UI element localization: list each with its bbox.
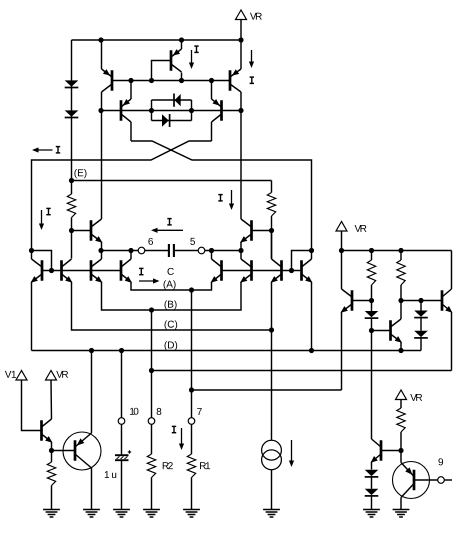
node junction rail / R7 xyxy=(398,248,403,253)
wire E right leg down to resistor R4 xyxy=(271,181,273,193)
node junction VR / Q21 collector xyxy=(339,248,344,253)
antiparallel diode pair box xyxy=(152,99,192,101)
label (A) xyxy=(164,280,176,289)
wire VR down to Q19 collector xyxy=(50,380,53,419)
wire Q7 collector riser xyxy=(101,111,103,220)
wire terminal 7 column xyxy=(191,290,193,418)
capacitor C left plate xyxy=(168,244,170,257)
transistor Q5 (PNP, top middle) xyxy=(170,50,173,71)
transistor Q11 (NPN, row2) xyxy=(60,260,63,281)
transistor Q22 (NPN, small right block) xyxy=(389,320,392,341)
node junction T1 emitter / top rail xyxy=(98,37,103,42)
wire cross-over left (Q4 collector to left column) xyxy=(32,141,212,251)
ground (below R2) xyxy=(143,509,160,511)
node junction Q4 emitter / base bus xyxy=(209,78,214,83)
transistor Q4 (PNP, mid right) xyxy=(220,100,223,121)
label (B) xyxy=(165,300,177,309)
resistor R6 xyxy=(371,251,373,261)
wire Q23 emitter riser xyxy=(371,462,373,470)
current arrow I (down, x=41.5) xyxy=(48,208,50,214)
wire terminal 10 column xyxy=(121,351,123,418)
transistor Q14 (NPN, row2) xyxy=(220,260,223,281)
diode D6 (chain upper) xyxy=(420,301,422,311)
wire net from terminal 7 to Q23 emitter y=390 xyxy=(192,389,342,391)
wire Q24 collector riser xyxy=(451,251,453,290)
wire V1 down to Q19 base xyxy=(22,380,42,431)
wire terminal 6 to capacitor xyxy=(145,250,168,252)
source V1 xyxy=(5,371,16,378)
transistor Q20 (PNP, circled) xyxy=(63,432,101,470)
wire current source to ground xyxy=(271,470,273,510)
wire Q25 collector to ground xyxy=(400,498,402,510)
wire Q19 emitter riser xyxy=(51,442,53,451)
wire Q20 base xyxy=(52,450,76,452)
node junction Q5 base / base bus xyxy=(149,78,154,83)
wire R4 bottom to Q12 collector xyxy=(271,231,273,259)
label (C) xyxy=(165,320,178,329)
ground (below C1) xyxy=(113,509,130,511)
resistor R2 xyxy=(147,454,155,478)
diode D2 (left string, lower) xyxy=(65,110,79,116)
current arrow I (down, x=231.5) xyxy=(220,195,222,201)
wire terminal 9 stub xyxy=(444,479,452,481)
wire VR rail y=250.5 xyxy=(342,250,452,252)
transistor Q8 (NPN, row1 right) xyxy=(250,220,253,241)
node junction R7 bottom / Q22 collector / base bus xyxy=(398,298,403,303)
label (D) xyxy=(165,341,178,350)
power VR (bottom left) xyxy=(46,371,57,381)
transistor Q16 (NPN, row2) xyxy=(280,260,283,281)
terminal 5 xyxy=(198,247,205,254)
node junction B line / terminal 8 column xyxy=(149,307,154,312)
wire Q10-base-collector jumper left xyxy=(32,251,52,271)
diode D5 (below R6) xyxy=(371,301,373,312)
transistor Q21 (NPN, right block left) xyxy=(351,290,354,311)
power VR (bottom right) xyxy=(396,390,407,400)
node junction D / Q17 emitter xyxy=(309,348,314,353)
transistor Q11c (NPN, row2) xyxy=(90,260,93,281)
wire net D y=350.5 xyxy=(32,350,422,352)
wire Q20 collector to ground xyxy=(91,468,93,510)
node junction diode pair right / bus xyxy=(189,108,194,113)
wire Q5 emitter riser xyxy=(181,40,183,49)
diode D4 (pair, bottom, pointing right) xyxy=(162,114,169,127)
wire Q1 collector riser xyxy=(101,92,103,111)
wire top rail y=40 xyxy=(72,39,242,41)
diode D1 (left string, upper) xyxy=(65,80,79,86)
wire Q10 emitter riser down to D line xyxy=(31,282,33,351)
wire Q25 emitter riser xyxy=(400,451,402,463)
wire Q21 emitter riser down to terminal7 net xyxy=(341,312,343,390)
wire base bus y=80.5 xyxy=(112,80,230,82)
wire right base bus y=300.5 xyxy=(401,300,442,302)
current arrow I (pointing right, A line) xyxy=(140,268,142,274)
node junction D / terminal 10 column xyxy=(119,348,124,353)
wire Q8 emitter riser xyxy=(240,242,242,251)
wire Q4 emitter riser xyxy=(211,81,213,100)
node junction Q19 emitter / R5 / Q20 base xyxy=(49,448,54,453)
node junction Q3 emitter / base bus xyxy=(128,78,133,83)
capacitor C right plate xyxy=(173,244,175,257)
wire Q11c collector riser xyxy=(101,251,103,260)
node junction C line end / Q16 emitter xyxy=(269,327,274,332)
node junction R3 bottom / Q7 base xyxy=(69,228,74,233)
wire Q13 emitter to A line xyxy=(131,282,212,290)
wire Q11 emitter riser to C line xyxy=(72,282,272,330)
resistor R1 xyxy=(187,454,195,478)
terminal 6 xyxy=(138,247,145,254)
transistor Q13 (NPN, row2) xyxy=(120,260,123,281)
current arrow I (right of Q6) xyxy=(251,50,253,66)
wire Q16 collector riser xyxy=(271,231,273,260)
wire base bus y=110.5 xyxy=(101,110,241,112)
wire Q13 collector riser xyxy=(130,251,132,260)
wire Q7 emitter riser xyxy=(101,242,103,251)
wire net from terminal 8 to Q24 emitter y=370.5 xyxy=(152,370,452,372)
ground (below R1) xyxy=(183,509,200,511)
wire Q4 collector riser xyxy=(211,122,213,141)
node junction A line / terminal 7 column xyxy=(189,287,194,292)
wire Q21 collector riser xyxy=(341,251,343,290)
transistor Q1 (PNP, top left) xyxy=(111,70,114,91)
node junction Q1 collector / bus xyxy=(98,108,103,113)
wire Q23 base xyxy=(381,450,401,452)
wire terminal 8 column xyxy=(151,310,153,418)
node junction diode pair left / bus xyxy=(149,108,154,113)
wire Q7 base xyxy=(72,230,92,232)
terminal 8 xyxy=(148,418,155,425)
wire node row y=250.5 left segment xyxy=(101,250,138,252)
wire node E horizontal xyxy=(72,180,272,182)
wire Q22 collector riser xyxy=(400,301,402,320)
wire diode chain to D line xyxy=(420,339,422,351)
resistor R4 (right, below E) xyxy=(267,193,275,217)
node junction VR / Q6 emitter / top rail xyxy=(238,37,243,42)
node junction Q7 emitter / Q11c collector xyxy=(98,248,103,253)
transistor Q15 (NPN, row2) xyxy=(250,260,253,281)
resistor R3 (left, below E) xyxy=(71,181,73,195)
node junction Q5 emitter / top rail xyxy=(179,37,184,42)
resistor R8 xyxy=(397,408,405,432)
node junction R8 bottom / Q23 base / Q25 emitter xyxy=(398,448,403,453)
node junction rail / R6 xyxy=(369,248,374,253)
wire capacitor C1 to ground xyxy=(121,461,123,510)
transistor Q24 (NPN, right block right) xyxy=(441,290,444,311)
wire Q3 collector riser xyxy=(130,122,132,141)
wire Q8 collector riser xyxy=(240,111,242,220)
wire Q17 collector riser xyxy=(311,251,313,260)
transistor Q10 (NPN, diode-connected, row2 far left) xyxy=(41,260,44,281)
node junction Q15 collector / Q8 emitter xyxy=(238,248,243,253)
node junction cross-wire / Q10 xyxy=(29,248,34,253)
current arrow I (pointing left, above terminal 6) xyxy=(169,219,171,225)
node junction D / Q22 emitter xyxy=(398,348,403,353)
node junction Q17 jumper / bus xyxy=(289,268,294,273)
wire cross-over right (Q3 collector to right column) xyxy=(131,141,312,251)
node junction terminal7 column / net xyxy=(189,387,194,392)
wire Q17 emitter riser to D line xyxy=(311,282,313,351)
wire Q5 base jumper xyxy=(152,61,172,81)
terminal 7 xyxy=(188,418,195,425)
current arrow I (below top rail, middle) xyxy=(196,46,198,52)
node junction R4 bottom / Q8 base xyxy=(269,228,274,233)
capacitor C1 1u polarized xyxy=(115,454,129,456)
diode D7 (chain lower) xyxy=(420,318,422,331)
wire Q1 emitter riser xyxy=(101,40,103,69)
current source CS1 xyxy=(262,440,282,460)
node junction Q5 collector / base bus xyxy=(179,78,184,83)
wire mirror base bus right y=270.5 xyxy=(222,270,302,272)
wire terminal 8 to R2 xyxy=(151,424,153,454)
wire Q6 collector riser xyxy=(240,92,242,111)
node junction D5 / Q22 base / Q23 collector column xyxy=(369,328,374,333)
resistor R7 xyxy=(400,251,402,261)
wire Q23 collector column xyxy=(371,331,373,440)
ground (below D9) xyxy=(363,509,380,511)
transistor Q7 (NPN, row1 left) xyxy=(90,220,93,241)
wire Q8 base xyxy=(252,230,272,232)
current arrow I (beside R1) xyxy=(173,426,175,432)
wire left diode-string column x=71.5 xyxy=(71,40,73,181)
wire terminal 7 to R1 xyxy=(191,424,193,454)
wire Q25 base to terminal 9 xyxy=(414,479,438,481)
wire terminal 5 to Q14 collector node xyxy=(205,250,241,252)
wire terminal 10 to capacitor C1 xyxy=(121,424,123,454)
wire Q3 emitter riser xyxy=(130,81,132,100)
power VR (top rail) xyxy=(236,10,247,20)
wire Q17 base-collector jumper xyxy=(292,251,312,271)
ground (below Q25) xyxy=(393,509,410,511)
node junction Q17 collector / cross wire xyxy=(309,248,314,253)
wire Q22 emitter riser xyxy=(400,342,402,351)
diode D8 (below Q23) xyxy=(365,470,379,476)
node (E) xyxy=(69,178,74,183)
diode D3 (pair, top, pointing left) xyxy=(175,94,181,106)
node junction Q10 base jumper / bus xyxy=(49,268,54,273)
node junction R6 bottom / Q21 base / D5 xyxy=(369,298,374,303)
wire Q22 base xyxy=(372,330,391,332)
power VR (right block) xyxy=(336,222,347,232)
wire Q6 emitter riser xyxy=(240,40,242,69)
wire Q21 base xyxy=(352,300,372,302)
current arrow I (left, pointing left) xyxy=(34,149,53,151)
wire R3 bottom to Q2 collector xyxy=(71,231,73,259)
wire mirror base bus left y=270.5 xyxy=(42,270,121,272)
wire Q15 collector riser xyxy=(240,251,242,260)
node junction Q14 collector xyxy=(209,248,214,253)
node junction Q13 collector xyxy=(128,248,133,253)
terminal 10 xyxy=(118,418,125,425)
resistor R5 xyxy=(51,451,53,463)
current arrow (beside current source) xyxy=(291,440,293,465)
wire Q11c emitter riser to B line xyxy=(102,282,242,310)
node junction diode chain / bus xyxy=(418,298,423,303)
node junction Q6 collector / bus xyxy=(238,108,243,113)
wire Q14 collector riser xyxy=(211,251,213,260)
transistor Q23 (NPN, output driver) xyxy=(380,440,383,461)
transistor Q3 (PNP, mid left) xyxy=(120,100,123,121)
transistor Q17 (NPN, diode-connected, row2 far right) xyxy=(300,260,303,281)
wire Q20 emitter riser up to D line xyxy=(91,351,93,434)
wire Q5 collector riser xyxy=(181,73,183,81)
transistor Q25 (PNP, circled output) xyxy=(393,462,430,499)
terminal 9 xyxy=(438,477,445,484)
transistor Q19 (NPN, input) xyxy=(40,420,43,441)
node junction D / Q20 emitter column xyxy=(89,348,94,353)
transistor Q6 (PNP, top right) xyxy=(229,70,232,91)
wire Q24 emitter riser to terminal8 net xyxy=(451,312,453,371)
wire capacitor to terminal 5 xyxy=(175,250,198,252)
diode D9 xyxy=(371,478,373,489)
wire Q10 collector riser xyxy=(31,251,33,260)
ground (Q20 collector) xyxy=(83,509,100,511)
ground (below R5) xyxy=(43,509,60,511)
node junction terminal8 column / net xyxy=(149,368,154,373)
ground (below current source) xyxy=(263,509,280,511)
wire Q16 emitter riser down to current source xyxy=(271,282,273,440)
